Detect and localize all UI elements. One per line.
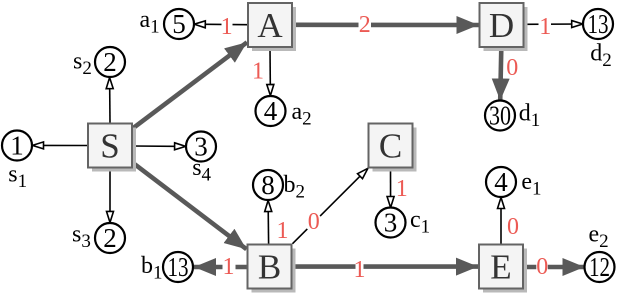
node circle s2 bbox=[95, 47, 125, 77]
svg-text:1: 1 bbox=[221, 14, 233, 40]
weight 2 on A->D bbox=[359, 12, 372, 38]
node circle e1 bbox=[486, 167, 516, 197]
svg-text:A: A bbox=[257, 6, 283, 45]
wire thick A->D bbox=[293, 22, 479, 27]
svg-text:E: E bbox=[490, 248, 511, 287]
wire thin D->d2 bbox=[525, 23, 584, 25]
node circle e2 bbox=[585, 252, 615, 282]
svg-text:0: 0 bbox=[506, 55, 518, 81]
wire thin E->e1 bbox=[500, 197, 502, 243]
svg-text:8: 8 bbox=[261, 170, 275, 200]
weight 1 on A->a1 bbox=[221, 14, 233, 40]
svg-text:30: 30 bbox=[489, 101, 511, 131]
node circle a1 bbox=[164, 9, 194, 39]
svg-text:1: 1 bbox=[396, 176, 408, 202]
svg-text:S: S bbox=[100, 127, 119, 166]
weight 1 on D->d2 bbox=[539, 14, 552, 40]
svg-text:1: 1 bbox=[252, 59, 264, 85]
weight 1 on B->b1 bbox=[223, 254, 236, 280]
wire thin S->s1 bbox=[32, 144, 87, 146]
node circle a2 bbox=[256, 96, 286, 126]
svg-text:1: 1 bbox=[10, 131, 24, 161]
node circle s1 bbox=[2, 131, 32, 161]
svg-text:0: 0 bbox=[507, 214, 519, 240]
weight 1 on B->E bbox=[354, 257, 366, 283]
node circle d1 bbox=[485, 101, 515, 131]
svg-text:4: 4 bbox=[494, 167, 508, 197]
node circle s3 bbox=[95, 223, 125, 253]
node circle b1 bbox=[163, 252, 193, 282]
svg-text:1: 1 bbox=[277, 218, 289, 244]
svg-text:5: 5 bbox=[172, 9, 186, 39]
node circle b2 bbox=[253, 170, 283, 200]
svg-text:2: 2 bbox=[103, 47, 117, 77]
svg-text:0: 0 bbox=[536, 254, 548, 280]
svg-text:4: 4 bbox=[264, 96, 278, 126]
wire thick B->b1 bbox=[194, 265, 247, 270]
node circle c1 bbox=[376, 208, 406, 238]
wire thick S->A bbox=[133, 42, 247, 128]
svg-text:2: 2 bbox=[103, 223, 117, 253]
wire thin A->a1 bbox=[194, 23, 247, 26]
node E bbox=[479, 245, 527, 293]
wire thin S->s4 bbox=[133, 145, 186, 147]
svg-text:3: 3 bbox=[384, 208, 398, 238]
svg-text:13: 13 bbox=[168, 252, 189, 282]
wire thick B->E bbox=[293, 264, 479, 269]
node D bbox=[480, 3, 528, 51]
wire thin B->b2 bbox=[267, 200, 270, 243]
wire thick E->e2 bbox=[524, 265, 585, 270]
svg-text:C: C bbox=[379, 127, 402, 166]
wire thin B->C (two segments with label gap) bbox=[293, 229, 308, 244]
wire thin A->a2 bbox=[269, 48, 271, 96]
weight 0 on E->e2 bbox=[536, 254, 548, 280]
node A bbox=[248, 3, 296, 51]
wire thin C->c1 bbox=[390, 168, 392, 208]
svg-text:13: 13 bbox=[588, 9, 609, 39]
node circle d2 bbox=[583, 9, 613, 39]
node S bbox=[88, 124, 136, 172]
wire thick S->B bbox=[133, 163, 247, 249]
svg-text:1: 1 bbox=[223, 254, 235, 280]
wire thick D->d1 bbox=[500, 48, 501, 101]
wire thin S->s3 bbox=[109, 169, 111, 223]
svg-text:12: 12 bbox=[589, 252, 610, 282]
svg-text:B: B bbox=[258, 248, 281, 287]
node circle s4 bbox=[186, 132, 216, 162]
wire thin S->s2 bbox=[109, 77, 111, 122]
svg-text:2: 2 bbox=[359, 12, 371, 38]
svg-text:0: 0 bbox=[308, 209, 320, 235]
node B bbox=[248, 245, 296, 293]
node C bbox=[369, 124, 417, 172]
svg-text:1: 1 bbox=[354, 257, 366, 283]
svg-text:1: 1 bbox=[539, 14, 551, 40]
svg-text:D: D bbox=[489, 6, 514, 45]
